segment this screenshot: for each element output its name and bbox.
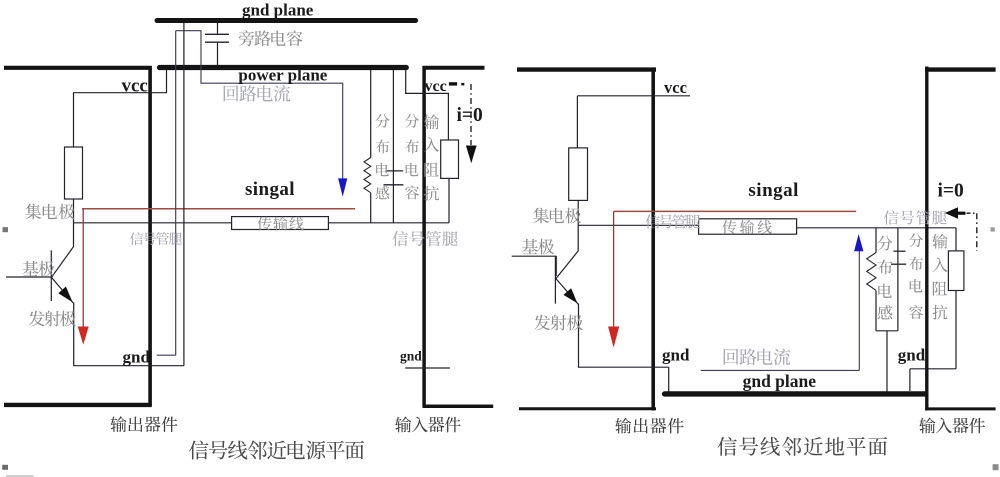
svg-text:singal: singal — [748, 180, 799, 201]
svg-text:gnd plane: gnd plane — [242, 1, 314, 20]
svg-text:gnd: gnd — [123, 348, 151, 367]
svg-text:gnd: gnd — [662, 345, 690, 364]
svg-text:vcc: vcc — [425, 78, 447, 95]
svg-text:gnd: gnd — [400, 349, 422, 364]
svg-text:singal: singal — [245, 179, 295, 200]
svg-text:power plane: power plane — [238, 66, 327, 85]
svg-text:gnd plane: gnd plane — [743, 371, 817, 391]
svg-text:vcc: vcc — [122, 76, 148, 97]
svg-text:vcc: vcc — [664, 78, 687, 97]
svg-text:gnd: gnd — [898, 346, 926, 365]
svg-text:i=0: i=0 — [457, 105, 483, 126]
svg-text:i=0: i=0 — [938, 181, 964, 202]
